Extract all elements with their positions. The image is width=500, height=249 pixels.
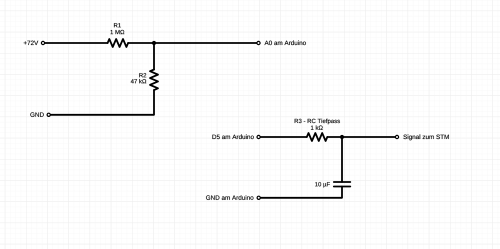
terminal GND am Arduino	[257, 196, 260, 199]
wire junction down to capacitor	[341, 137, 343, 182]
wire R2 to GND corner	[51, 90, 154, 115]
capacitor C1 plate bottom	[334, 186, 351, 188]
label R2	[139, 73, 146, 77]
wire R1 to A0	[128, 42, 256, 44]
wire R3 to Signal	[327, 136, 395, 138]
terminal +72V	[41, 41, 44, 44]
wire +72V to R1	[45, 42, 108, 44]
resistor R2	[150, 70, 158, 91]
wire D5 to R3	[261, 136, 307, 138]
label D5 am Arduino	[212, 134, 253, 139]
junction node top	[152, 41, 156, 45]
label R1 value 1 MΩ	[111, 30, 125, 34]
capacitor C1 plate top	[334, 181, 351, 183]
resistor R3	[307, 133, 328, 141]
terminal Signal zum STM	[395, 135, 398, 138]
label R2 value 47 kΩ	[131, 79, 147, 83]
label R1	[114, 23, 121, 27]
wire capacitor to GND am Arduino	[261, 187, 342, 198]
terminal GND	[47, 113, 50, 116]
label GND am Arduino	[206, 195, 253, 200]
terminal A0 am Arduino	[257, 41, 260, 44]
label GND	[30, 112, 43, 117]
terminal D5 am Arduino	[257, 135, 260, 138]
label Signal zum STM	[403, 134, 448, 140]
resistor R1	[108, 39, 129, 47]
junction node bottom	[340, 135, 344, 139]
label R3 value 1 kΩ	[311, 125, 323, 129]
wire junction down to R2	[153, 43, 155, 70]
label +72V	[24, 41, 39, 45]
label R3 - RC Tiefpass	[295, 119, 340, 125]
label A0 am Arduino	[264, 40, 305, 45]
label capacitor value 10 µF	[315, 182, 330, 187]
